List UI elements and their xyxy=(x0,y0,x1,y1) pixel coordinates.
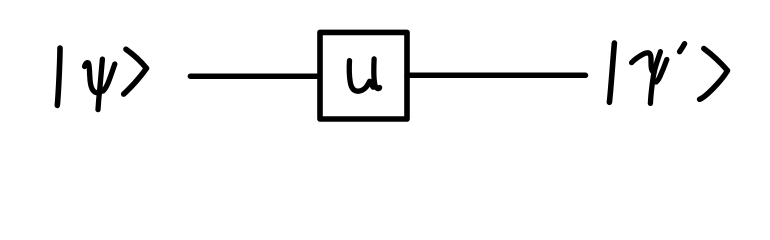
node psi-in psi glyph right arm xyxy=(103,64,115,91)
node psi-out ket bracket xyxy=(700,49,728,100)
node psi-out ket bar xyxy=(609,43,614,102)
node psi-out psi glyph right arm xyxy=(656,60,667,83)
node psi-out psi glyph descender xyxy=(650,52,660,104)
gate U label right stroke xyxy=(374,59,380,89)
node psi-in psi glyph left arm and bowl xyxy=(85,63,103,93)
gate U box xyxy=(320,32,407,119)
node psi-out psi glyph bowl xyxy=(632,53,655,72)
node psi-out prime mark xyxy=(680,44,685,52)
gate U label left stroke xyxy=(349,61,373,92)
node psi-in ket bracket xyxy=(124,49,147,94)
wire left xyxy=(190,73,319,79)
node psi-in psi glyph stem xyxy=(98,59,102,110)
node psi-in ket bar xyxy=(57,48,60,105)
wire right xyxy=(407,73,586,79)
